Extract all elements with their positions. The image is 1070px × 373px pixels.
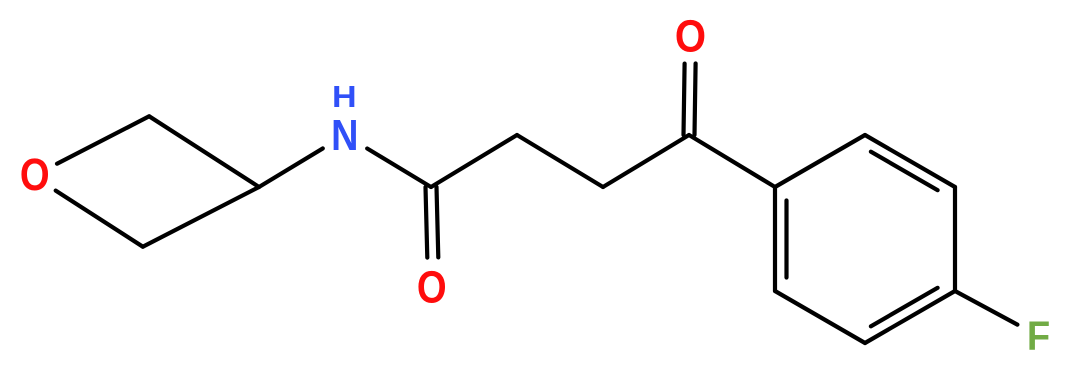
svg-text:H: H (332, 80, 357, 114)
svg-text:O: O (417, 261, 447, 312)
svg-text:O: O (675, 11, 706, 62)
svg-text:F: F (1027, 314, 1050, 360)
svg-text:O: O (20, 149, 50, 200)
svg-text:N: N (331, 111, 358, 160)
